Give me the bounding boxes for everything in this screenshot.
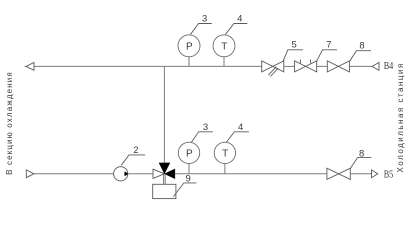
- wire bottom pipe left: [34, 173, 114, 175]
- wire top pipe valve5-valve7: [284, 65, 295, 67]
- wire top pipe valve7-valve8: [317, 65, 328, 67]
- label 5 leader: [283, 40, 303, 61]
- label 8 (top) leader: [350, 40, 371, 61]
- svg-text:4: 4: [238, 122, 243, 133]
- gauge P2 (pressure, bottom): [178, 142, 199, 174]
- svg-text:T: T: [221, 41, 227, 52]
- svg-text:7: 7: [326, 40, 331, 51]
- gauge T2 (temperature, bottom): [214, 142, 235, 174]
- svg-text:3: 3: [203, 122, 208, 133]
- valve 5 (balancing valve, top): [262, 61, 284, 77]
- gauge P1 (pressure, top): [178, 35, 200, 67]
- valve 8 (shut-off valve, bottom): [327, 168, 350, 179]
- wire pump to 3-way valve: [128, 173, 153, 175]
- port arrow B5: [372, 170, 378, 178]
- svg-text:В секцию охлаждения: В секцию охлаждения: [5, 71, 14, 175]
- label 3 (bottom) leader: [191, 122, 213, 143]
- svg-text:2: 2: [133, 145, 138, 156]
- valve 8 (shut-off valve, top): [327, 61, 349, 72]
- port arrow B4: [372, 62, 379, 70]
- wire top pipe main: [34, 65, 262, 67]
- label 3 (top) leader: [191, 14, 212, 35]
- 3-way control valve 9: [153, 163, 176, 199]
- svg-text:В4: В4: [384, 61, 394, 72]
- svg-text:8: 8: [359, 149, 364, 160]
- label 7 leader: [317, 40, 337, 61]
- label 2 leader: [121, 145, 145, 166]
- gauge T1 (temperature, top): [213, 35, 235, 67]
- wire top pipe valve8-arrow: [350, 65, 373, 67]
- pump 2: [114, 167, 129, 181]
- svg-text:5: 5: [292, 40, 297, 51]
- wire vertical drop to 3-way valve: [163, 66, 165, 163]
- svg-text:P: P: [186, 148, 193, 159]
- wire bottom valve8 to arrow: [350, 173, 371, 175]
- wire 3-way valve to bottom valve 8: [175, 173, 327, 175]
- label 4 (bottom) leader: [226, 122, 249, 143]
- label 8 (bottom) leader: [350, 149, 371, 169]
- flow arrow left (to cooling section): [25, 63, 35, 71]
- valve 7 (shut-off valve with stem ticks, top): [295, 59, 317, 72]
- label 4 (top) leader: [226, 14, 248, 35]
- svg-text:Холодильная станция: Холодильная станция: [396, 62, 405, 172]
- svg-text:P: P: [186, 41, 193, 52]
- svg-text:T: T: [222, 148, 228, 159]
- label 9 leader: [173, 174, 196, 197]
- flow arrow bottom-left (inlet): [26, 170, 34, 178]
- svg-text:8: 8: [359, 40, 364, 51]
- svg-text:В5: В5: [384, 169, 394, 180]
